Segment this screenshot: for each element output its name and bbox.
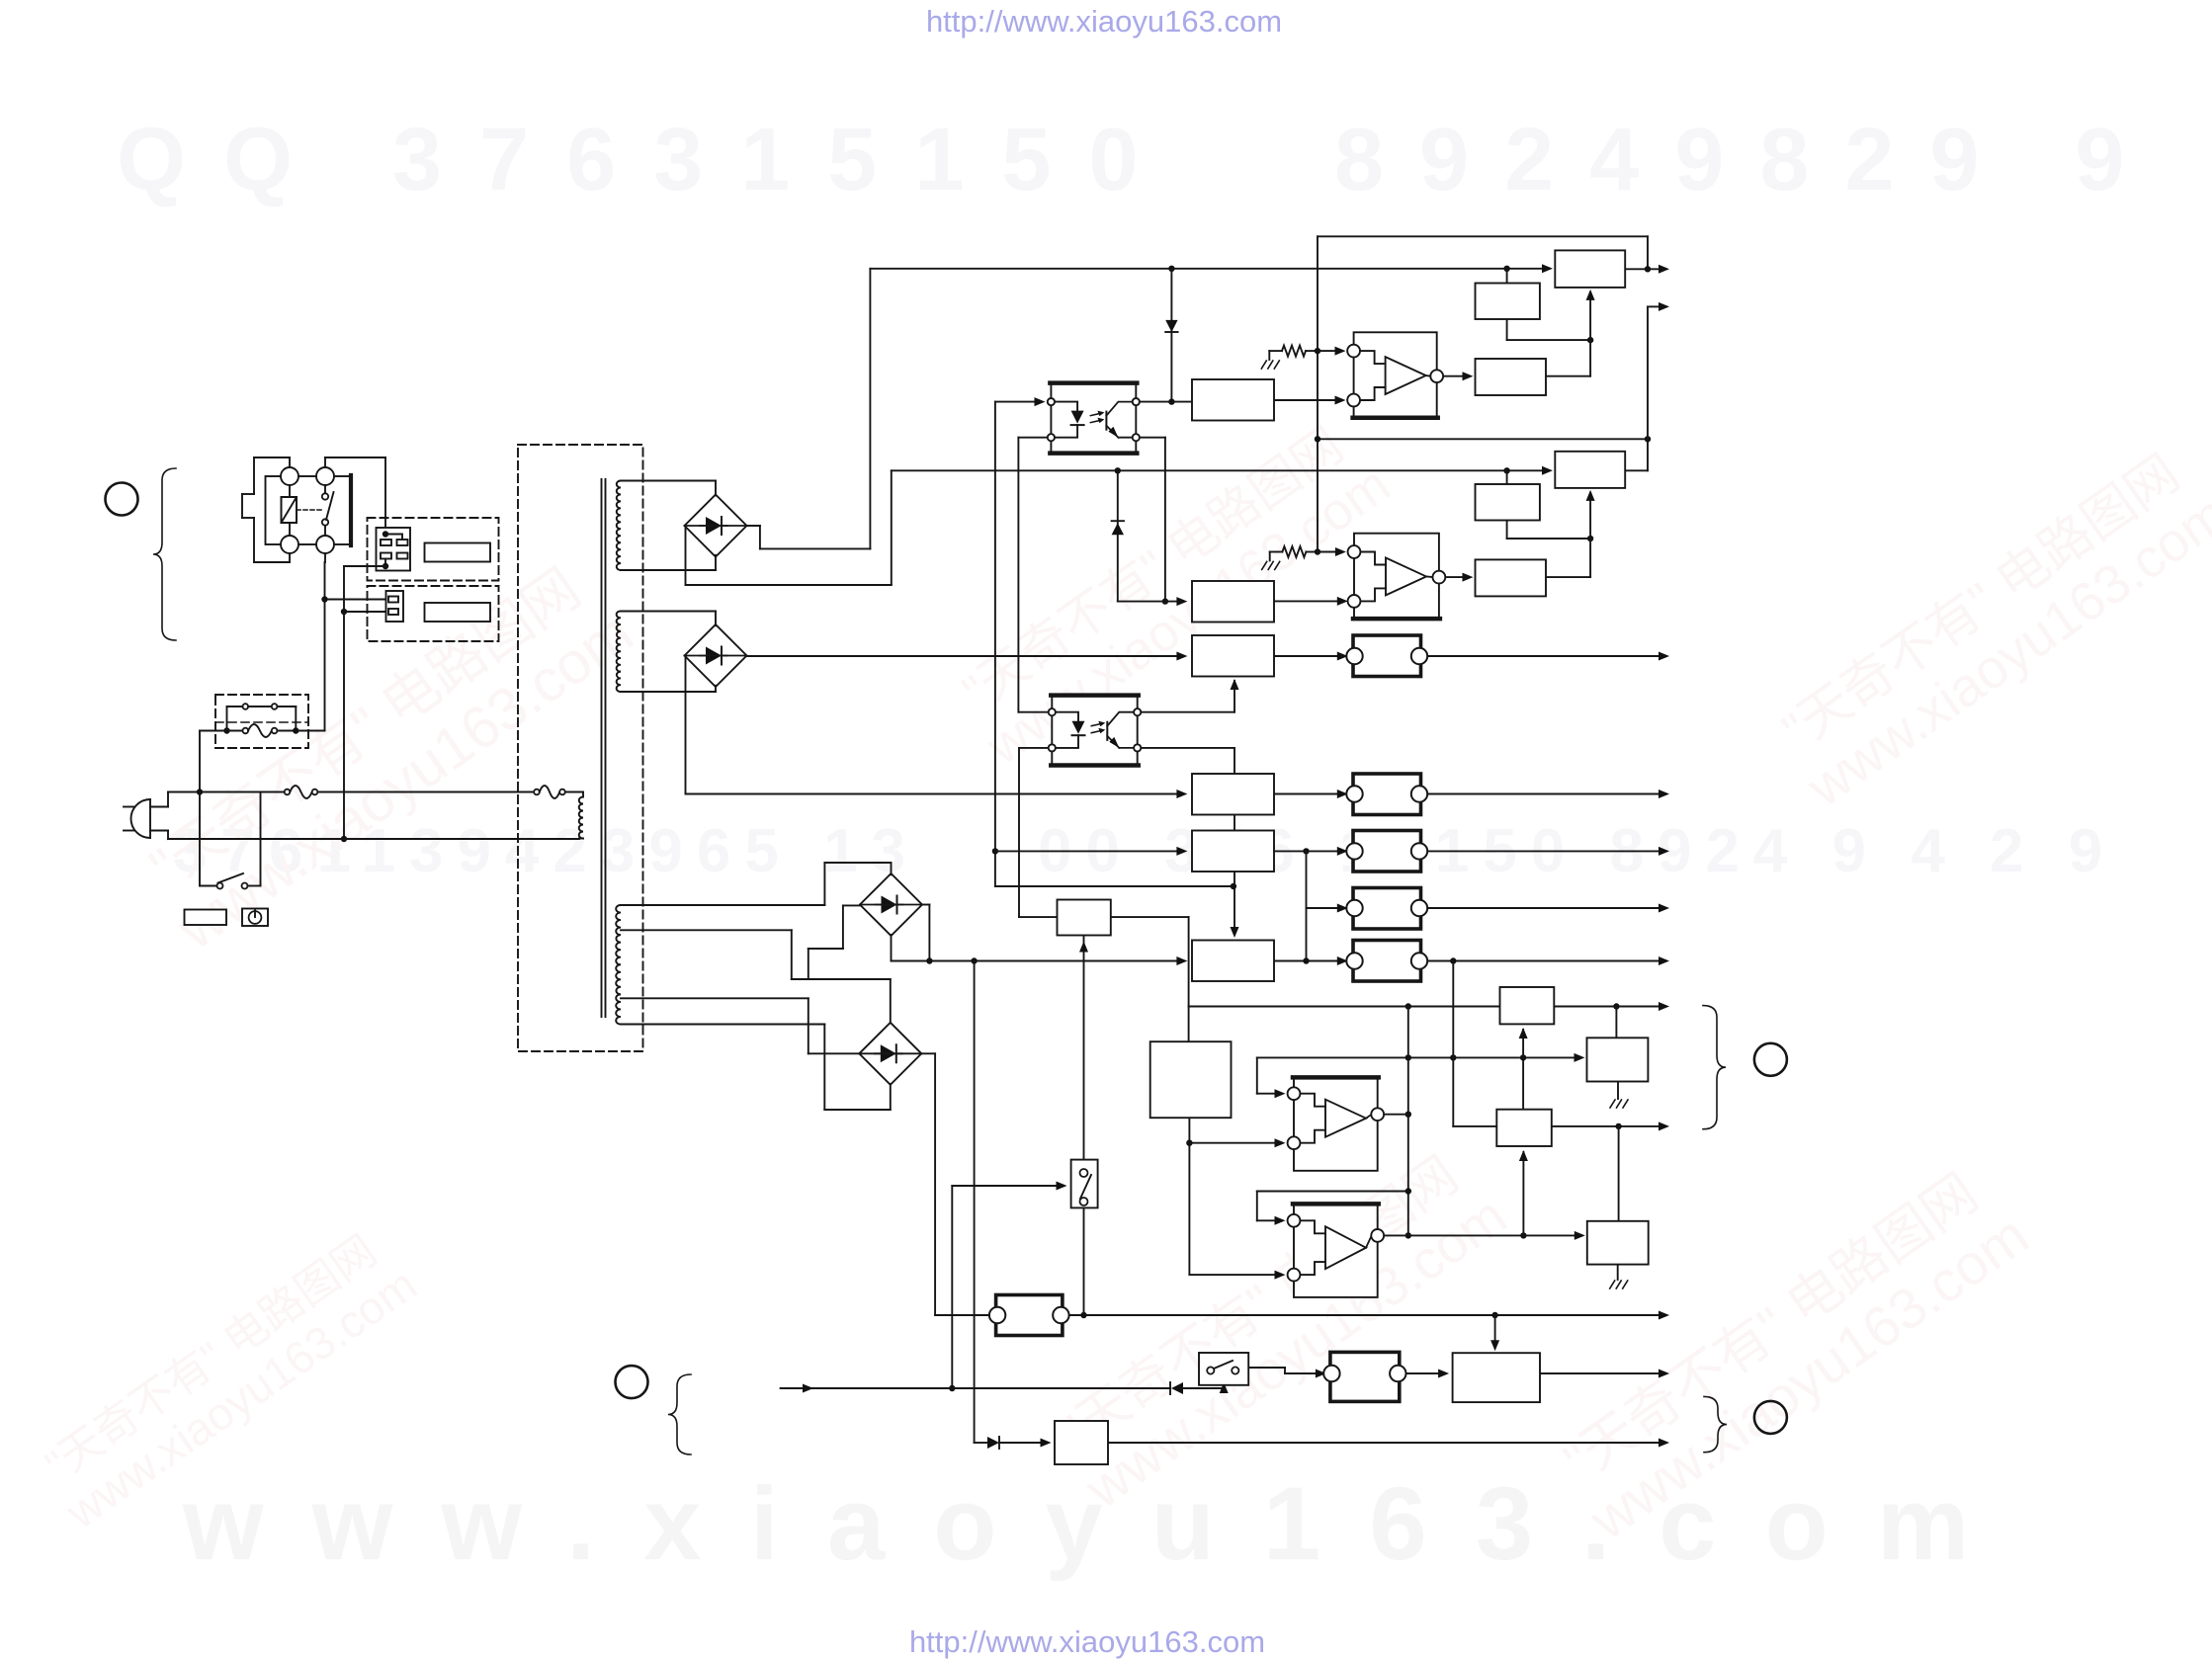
relay RY901 contact/coil frame <box>266 475 352 545</box>
wire ch1 aux top <box>1506 269 1508 284</box>
rail row +C from D902 <box>746 652 1188 661</box>
box ch1 driver <box>1476 359 1547 395</box>
wire ch2 driver out <box>1546 539 1590 577</box>
wire row-H out <box>1554 1002 1669 1011</box>
transformer winding W1 <box>617 481 716 571</box>
wire to box11 top <box>1615 1007 1617 1039</box>
wire D901 + output to +B rail <box>746 269 871 549</box>
wire IC903 bottom <box>1186 1118 1192 1275</box>
wire ch1 driver out <box>1546 340 1590 376</box>
relay RY901 coil-contact dashed link <box>297 509 322 511</box>
transformer winding W2 <box>617 611 716 692</box>
box AVR ch1 <box>1555 250 1625 288</box>
wire down into box14 <box>1490 1315 1499 1351</box>
wire W3 tap1 to bridge D903 <box>621 863 892 905</box>
wire ch2 box out <box>1625 439 1648 470</box>
pass transistor Q5 <box>1346 941 1427 982</box>
resistor R901 <box>1269 346 1345 357</box>
wire plug neutral <box>150 831 168 840</box>
box row-C <box>1192 635 1274 677</box>
box row-J <box>1496 1110 1552 1146</box>
ground R901 <box>1261 351 1279 369</box>
wire diode to switch2 <box>1183 1382 1229 1393</box>
wire to box12 <box>1522 1057 1524 1109</box>
connector label circle right 2 <box>1754 1401 1787 1434</box>
sense line vertical <box>1405 1007 1411 1239</box>
rail row-D from D902 minus <box>686 656 1188 799</box>
wire IC902 out <box>1445 573 1473 582</box>
box AVR ch2 <box>1555 452 1625 488</box>
box ch2 error amp input <box>1192 581 1274 623</box>
box row-I <box>1587 1038 1649 1081</box>
wire CN902 pin2 <box>341 609 388 615</box>
wire up into box row-H <box>1519 1028 1528 1057</box>
wire row-C out <box>1421 652 1670 661</box>
relay RY901 outer bracket <box>242 457 290 562</box>
diode D907 <box>1170 1382 1183 1394</box>
box ch1 error amp input <box>1192 379 1274 421</box>
rail SW input <box>781 1384 1170 1393</box>
label box POWER <box>185 910 227 926</box>
diode D908 <box>987 1437 999 1449</box>
system control box IC903 <box>1150 1041 1232 1118</box>
wire row-G out <box>1421 956 1670 965</box>
fuse F903 <box>534 786 583 798</box>
wire W3 tap3 to bridge D904 left <box>621 998 860 1053</box>
switch relay drive <box>1079 936 1088 1160</box>
wire relay bottom stubs <box>290 553 325 562</box>
wire PC901 anode line down <box>992 402 1236 890</box>
wire ch2 drive up <box>1586 490 1595 539</box>
box ch2 driver <box>1476 559 1547 596</box>
connector label circle right 1 <box>1754 1043 1787 1076</box>
wire ch2 aux top <box>1506 470 1508 484</box>
op-amp regulator IC902 <box>1348 534 1446 619</box>
wire IC904A in+ <box>1257 1057 1286 1098</box>
transformer core <box>602 479 606 1017</box>
box timer <box>1058 900 1111 936</box>
wire ch2 out up <box>1648 302 1669 439</box>
svg-text:http://www.xiaoyu163.com: http://www.xiaoyu163.com <box>926 4 1282 39</box>
wire PC901 emitter down <box>1140 438 1168 605</box>
sense rail <box>1257 1053 1585 1062</box>
wire PC902 cathode down <box>1019 748 1058 917</box>
wire row-D out <box>1421 789 1670 798</box>
ground R902 <box>1262 552 1280 570</box>
rail row-E <box>995 847 1188 856</box>
wire row-D to pass Q2 <box>1274 789 1348 798</box>
wire row-E to pass Q3 <box>1274 847 1348 856</box>
feedback rail ch2 <box>1315 436 1651 442</box>
connector label circle (AC input sheet ref) <box>106 483 138 516</box>
wire relay top-right to CN901 <box>325 457 385 535</box>
transformer winding W3 <box>616 905 621 1025</box>
wire SW901 control <box>949 1182 1066 1392</box>
wire IC904B in+ <box>1257 1192 1408 1225</box>
dashed enclosure CN902 <box>368 586 499 641</box>
box row-G <box>1192 941 1274 982</box>
wire row-E out <box>1421 847 1670 856</box>
op-amp regulator IC904B <box>1288 1204 1385 1297</box>
wire into PC901 anode <box>995 397 1046 406</box>
box row-E <box>1192 831 1274 873</box>
box ch2 aux <box>1476 484 1540 521</box>
fuse F901 <box>223 724 298 737</box>
AC plug <box>124 799 150 838</box>
wire IC904B out <box>1384 1231 1585 1240</box>
wire PC901 collector to box <box>1140 398 1192 404</box>
rail row-L out <box>1066 1311 1670 1320</box>
connector CN902 2-pin <box>386 591 404 622</box>
wire row-G to pass Q5 <box>1274 956 1348 965</box>
wire row-F out <box>1421 904 1670 913</box>
optocoupler PC902 <box>1049 696 1142 766</box>
ground box row-K <box>1610 1265 1628 1288</box>
wire W3 tap4 to bridge D904 bottom <box>621 1025 891 1111</box>
box row-H <box>1500 987 1555 1024</box>
power switch S901 <box>200 792 261 889</box>
wire W2 to D902 <box>715 612 717 693</box>
transformer primary winding <box>579 792 583 839</box>
brace input group bottom <box>668 1374 691 1454</box>
wire AC live rail <box>168 789 534 794</box>
wire D901 - output <box>686 470 892 585</box>
wire rowG branch down <box>1453 961 1669 1131</box>
wire rowG down to row-M <box>975 961 987 1444</box>
rail row-H <box>1189 1003 1500 1009</box>
wire IC901 out <box>1443 372 1473 380</box>
connector label circle bottom left <box>616 1366 648 1398</box>
op-amp regulator IC901 <box>1347 332 1443 417</box>
dashed enclosure CN901 <box>368 518 499 581</box>
pass transistor Q2 <box>1346 774 1427 815</box>
box standby <box>1055 1421 1108 1464</box>
wire box to IC902 inv input <box>1274 597 1348 606</box>
switch SW901 <box>1071 1160 1098 1208</box>
feedback rail ch1 <box>1318 236 1651 551</box>
label box CN901 <box>425 543 491 562</box>
rail channel 2 <box>892 466 1553 475</box>
relay RY901 coil <box>282 485 298 536</box>
wire SW902 out <box>1248 1368 1326 1378</box>
wire box14 out <box>1540 1370 1669 1378</box>
pass transistor Q1 <box>1346 635 1427 677</box>
wire SW901 to row-L <box>1083 1207 1085 1315</box>
label box CN902 <box>425 603 491 622</box>
svg-text:QQ 376315150: QQ 376315150 <box>117 111 1176 209</box>
wire row-C to pass Q1 <box>1274 652 1348 661</box>
relay RY901 terminal circles <box>281 467 334 553</box>
wire ch1 drive up <box>1586 290 1595 340</box>
wire PC902 emitter down to row <box>1142 748 1239 938</box>
bridge rectifier D904 <box>859 1023 921 1085</box>
wire CN902 pin1 <box>321 596 388 602</box>
op-amp regulator IC904A <box>1288 1077 1385 1170</box>
wire F901 right lead <box>298 730 324 732</box>
wire to opamp A inv <box>1189 1138 1285 1147</box>
fuse F902 <box>285 786 318 798</box>
wire Q7 to box14 <box>1403 1370 1449 1378</box>
wire W3 tap2 to bridge D904 top <box>621 930 891 1023</box>
ground box row-I <box>1610 1082 1628 1109</box>
bridge rectifier D902 <box>685 624 747 687</box>
wire branch row-F <box>1307 851 1348 960</box>
svg-text:http://www.xiaoyu163.com: http://www.xiaoyu163.com <box>909 1624 1265 1659</box>
bridge rectifier D903 <box>860 873 922 936</box>
wire ch1 aux bottom <box>1507 319 1594 343</box>
resistor R902 <box>1270 546 1346 557</box>
pass transistor Q6 <box>989 1295 1069 1336</box>
zener diode D905 <box>1165 269 1177 402</box>
box ch1 aux <box>1476 284 1540 320</box>
wire relay top-left stub <box>289 457 291 467</box>
wire relay bottom-right down <box>324 562 326 731</box>
dashed enclosure transformer T901 <box>518 445 643 1051</box>
wire branch to bridge D903 left <box>808 905 861 979</box>
wire plug live <box>150 792 168 807</box>
wire D904 + output down <box>922 1053 989 1315</box>
switch SW902 <box>1199 1353 1248 1385</box>
wire F901 left lead <box>200 731 224 792</box>
dashed enclosure fuse F901 <box>215 695 308 748</box>
wire up into box row-J <box>1519 1150 1528 1235</box>
relay RY901 contact switch <box>322 485 334 536</box>
pass transistor Q7 <box>1323 1352 1405 1401</box>
wire W1 to D901 <box>715 481 717 571</box>
wire diode to box15 <box>999 1439 1052 1448</box>
wire D903 bottom output <box>892 935 1188 965</box>
connector CN901 4-pin <box>344 528 410 571</box>
wire ch2 aux bottom <box>1507 521 1594 542</box>
wire ch1 out <box>1625 265 1669 274</box>
pass transistor Q4 <box>1346 888 1427 930</box>
brace output group 2 <box>1704 1396 1727 1452</box>
box row-K <box>1587 1221 1649 1265</box>
optocoupler PC901 <box>1048 383 1140 454</box>
box row-D <box>1192 774 1274 815</box>
wire timer out <box>1111 917 1189 1041</box>
wire to box13 top <box>1618 1126 1620 1221</box>
wire PC902 collector up to row <box>1142 679 1239 712</box>
wire AC neutral rail <box>168 838 579 840</box>
wire CN901 return down to AC line <box>341 566 347 842</box>
+B rail (channel 1) <box>870 264 1553 273</box>
box mute control <box>1453 1353 1540 1402</box>
label box power symbol <box>242 909 268 927</box>
brace left of relay block <box>153 468 176 640</box>
pass transistor Q3 <box>1346 831 1427 873</box>
zener diode D906 <box>1112 470 1124 601</box>
wire D903 right corner <box>921 905 929 961</box>
wire box to IC901 inv input <box>1274 396 1346 405</box>
fuse F901 bypass link <box>227 704 297 730</box>
wire IC904A out <box>1384 1114 1408 1116</box>
wire PC901 cathode down to PC902 <box>1018 438 1048 712</box>
bridge rectifier D901 <box>685 495 747 557</box>
svg-text:89249829 9: 89249829 9 <box>1334 111 2161 209</box>
wire zener to box ch2 <box>1118 597 1188 606</box>
wire row-M out <box>1108 1439 1669 1448</box>
brace output group 1 <box>1703 1006 1726 1129</box>
wire to opamp B inv <box>1189 1271 1285 1280</box>
